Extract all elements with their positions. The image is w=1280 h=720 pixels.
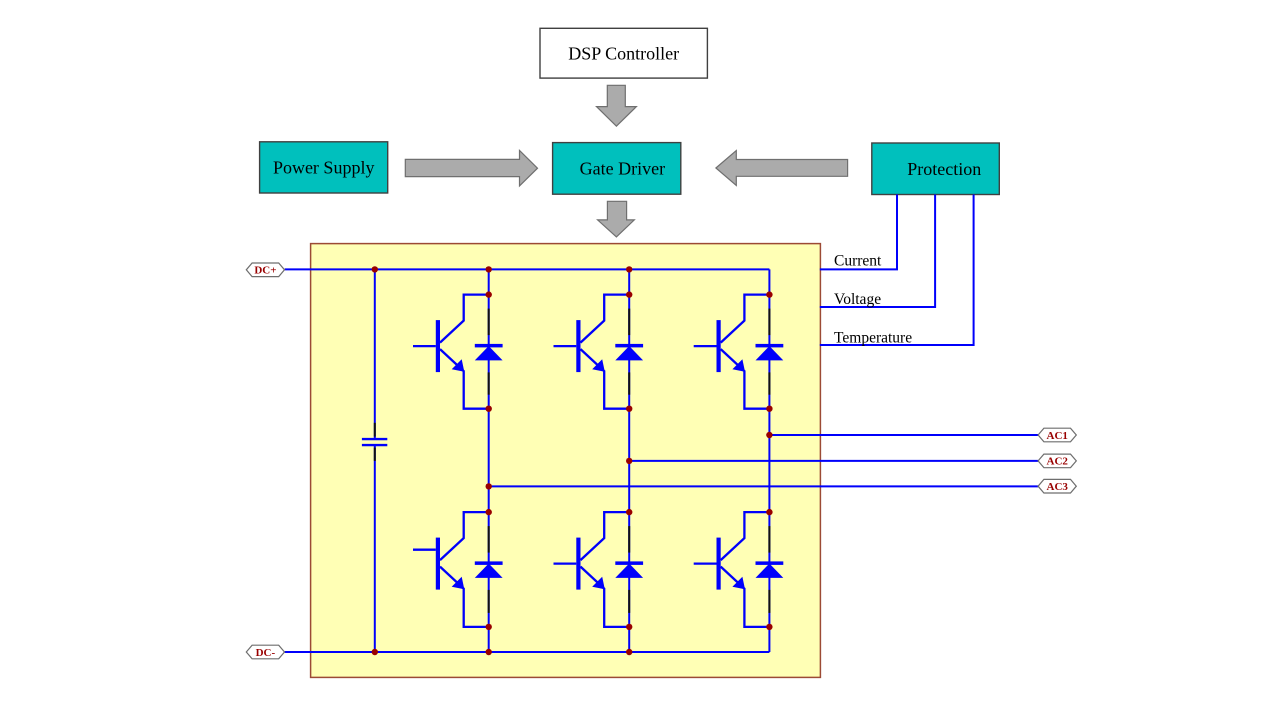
wire AC2 output	[629, 460, 1038, 462]
arrow DSP Controller to Gate Driver	[597, 85, 637, 126]
junction QB2 collector node	[626, 509, 632, 515]
wire DC-link capacitor branch upper	[374, 269, 376, 439]
diode DA2 (lower freewheel)	[475, 561, 503, 578]
port AC2	[1038, 454, 1076, 468]
junction QA1 collector node	[486, 291, 492, 297]
arrow Power Supply to Gate Driver	[405, 150, 537, 186]
arrow Gate Driver to inverter bridge	[598, 201, 635, 237]
junction QB1 emitter node	[626, 406, 632, 412]
diode DA1 pin leads	[488, 309, 490, 395]
junction QC1 collector node	[766, 291, 772, 297]
wire phase leg C	[768, 269, 770, 652]
junction QB1 collector node	[626, 291, 632, 297]
svg-text:Voltage: Voltage	[834, 291, 881, 308]
diode DA1 (upper freewheel)	[475, 344, 503, 361]
transistor QB1 (upper IGBT phase B)	[554, 295, 630, 409]
block Power Supply	[260, 142, 388, 193]
inverter bridge sheet	[311, 244, 821, 678]
wire temperature sense to Protection	[820, 195, 974, 346]
wire phase leg B	[628, 269, 630, 652]
transistor QA1 (upper IGBT phase A)	[413, 295, 489, 409]
svg-text:Power Supply: Power Supply	[273, 158, 375, 178]
wire DC- rail	[285, 651, 770, 653]
svg-text:Protection: Protection	[907, 159, 981, 179]
capacitor C1	[362, 439, 387, 445]
diode DB1 pin leads	[628, 309, 630, 395]
svg-text:DC+: DC+	[254, 265, 276, 277]
diode DC1 pin leads	[768, 309, 770, 395]
port AC3	[1038, 479, 1076, 493]
wire phase leg A	[488, 269, 490, 652]
junction QC1 emitter node	[766, 406, 772, 412]
diode DC1 (upper freewheel)	[756, 344, 784, 361]
svg-text:Temperature: Temperature	[834, 329, 912, 346]
block DSP Controller U1	[540, 28, 707, 78]
wire current sense to Protection	[820, 195, 897, 270]
transistor QA2 (lower IGBT phase A)	[413, 512, 489, 627]
diode DB2 (lower freewheel)	[615, 561, 643, 578]
junction QA1 emitter node	[486, 406, 492, 412]
junction AC3 tap	[486, 483, 492, 489]
svg-text:DSP Controller: DSP Controller	[568, 43, 679, 63]
transistor QC2 (lower IGBT phase C)	[694, 512, 770, 627]
junction DC- rail / leg B	[626, 649, 632, 655]
junction QC2 emitter node	[766, 624, 772, 630]
junction DC+ rail / capacitor	[372, 266, 378, 272]
diode DB1 (upper freewheel)	[615, 344, 643, 361]
diode DB2 pin leads	[628, 526, 630, 613]
block Gate Driver	[553, 143, 681, 195]
transistor QC1 (upper IGBT phase C)	[694, 295, 770, 409]
svg-text:DC-: DC-	[256, 647, 276, 659]
svg-text:AC2: AC2	[1047, 456, 1069, 468]
diode DC2 pin leads	[768, 526, 770, 613]
junction QC2 collector node	[766, 509, 772, 515]
junction DC+ rail / leg B	[626, 266, 632, 272]
junction AC2 tap	[626, 458, 632, 464]
junction AC1 tap	[766, 432, 772, 438]
junction QA2 collector node	[486, 509, 492, 515]
svg-text:Current: Current	[834, 253, 882, 270]
junction QA2 emitter node	[486, 624, 492, 630]
junction QB2 emitter node	[626, 624, 632, 630]
wire AC1 output	[769, 434, 1038, 436]
wire voltage sense to Protection	[820, 195, 935, 308]
capacitor C1 pin leads	[374, 423, 376, 461]
svg-text:AC3: AC3	[1047, 481, 1069, 493]
diode DA2 pin leads	[488, 526, 490, 613]
wire AC3 output	[489, 485, 1038, 487]
port DC-	[246, 645, 284, 659]
block Protection	[872, 143, 1000, 195]
svg-text:Gate Driver: Gate Driver	[580, 159, 665, 179]
diode DC2 (lower freewheel)	[756, 561, 784, 578]
port AC1	[1038, 428, 1076, 442]
wire DC-link capacitor branch lower	[374, 445, 376, 652]
arrow Protection to Gate Driver	[716, 151, 848, 186]
wire DC+ rail	[285, 268, 770, 270]
junction DC+ rail / leg A	[486, 266, 492, 272]
svg-text:AC1: AC1	[1047, 430, 1068, 442]
junction DC- rail / leg A	[486, 649, 492, 655]
transistor QB2 (lower IGBT phase B)	[554, 512, 630, 627]
junction DC- rail / capacitor	[372, 649, 378, 655]
port DC+	[246, 263, 284, 277]
